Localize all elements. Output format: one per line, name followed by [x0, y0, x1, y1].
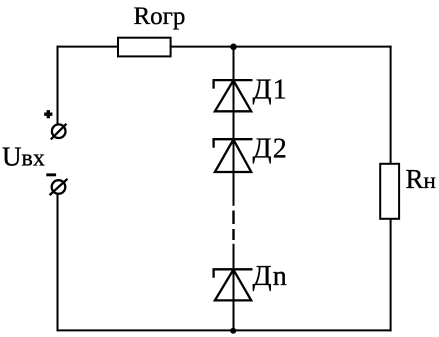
node: top junction dot: [230, 44, 237, 51]
wire: left vertical lower: [57, 194, 59, 332]
wire: left vertical upper: [57, 46, 59, 125]
svg-text:Rн: Rн: [406, 164, 436, 194]
resistor Rogr body: [118, 38, 171, 57]
terminal: plus input: [51, 124, 67, 140]
svg-text:Д1: Д1: [253, 75, 289, 106]
svg-text:Uвх: Uвх: [2, 142, 45, 172]
wire: top rail left segment: [57, 46, 120, 48]
diode D2 (zener): [214, 139, 253, 172]
wire: middle vertical solid lower: [233, 244, 235, 331]
svg-text:Дn: Дn: [253, 261, 289, 292]
diode Dn (zener): [214, 269, 253, 300]
wire: middle vertical solid upper: [233, 47, 235, 206]
wire: bottom rail: [57, 329, 392, 331]
svg-text:Rогр: Rогр: [134, 3, 186, 30]
diode D1 (zener): [214, 80, 253, 111]
wire: right vertical upper: [390, 46, 392, 165]
wire: middle vertical dashed break: [232, 211, 234, 241]
label minus sign: [46, 173, 56, 176]
terminal: minus input: [50, 179, 68, 195]
label plus sign: [44, 110, 52, 118]
resistor Rn body: [380, 164, 399, 219]
svg-text:Д2: Д2: [253, 134, 289, 165]
wire: right vertical lower: [390, 218, 392, 331]
node: bottom junction dot: [230, 328, 236, 334]
wire: top rail right segment: [170, 46, 392, 48]
